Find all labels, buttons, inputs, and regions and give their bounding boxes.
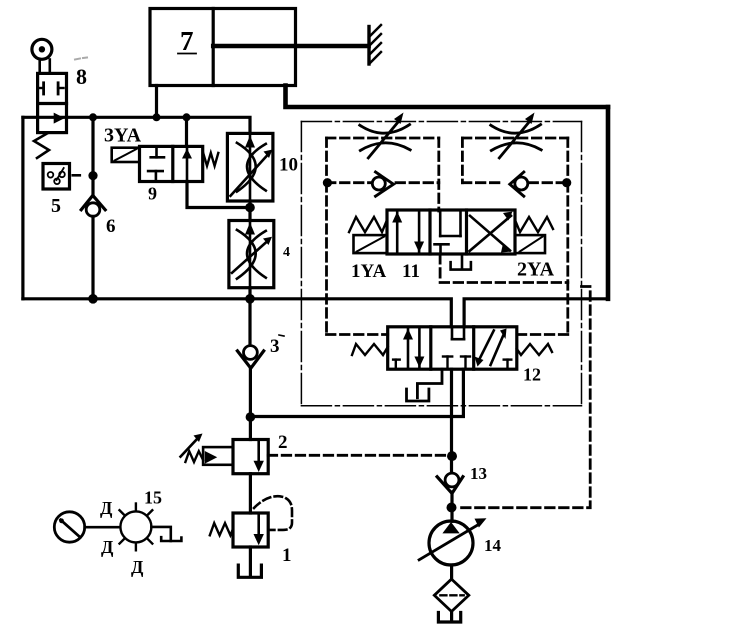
motor group 15: gauge circle [54,512,84,542]
wire bottom bus right [464,299,608,327]
remote throttle right [491,113,542,158]
check valve 3 [237,346,263,369]
wire right edge [606,107,611,299]
junction node pilot2 [447,451,457,461]
label 3 [270,335,284,357]
valve 1 [210,496,292,547]
junction node between throttles [245,203,255,213]
junction node bus-left [89,113,97,121]
svg-text:13: 13 [470,464,487,483]
check valve 13 [437,473,463,493]
svg-text:5: 5 [51,195,61,217]
svg-text:9: 9 [148,184,157,204]
wire top bus [23,117,250,133]
wire motor drain [151,527,170,541]
pump supply line [450,369,453,473]
valve 2 [181,434,269,474]
wire cylinder right port to right edge [286,86,609,108]
throttle valve 10 [227,133,273,201]
solenoid 3YA [112,148,140,162]
wire bus down to check 3 [248,299,251,346]
valve 12 [352,327,552,369]
wire bus to valve 9 [185,117,188,146]
motor 15 circle [120,504,153,551]
junction node relay [88,171,97,180]
valve 9 [140,146,219,181]
wire cylinder left port [155,86,158,118]
svg-text:2: 2 [278,432,288,453]
subsystem frame box [301,122,581,406]
wire pilot valve2 dashed [268,454,448,457]
wire 4 to bus [248,288,251,299]
label 7 [178,26,196,56]
svg-text:Д: Д [131,557,144,577]
pressure switch 5 [43,164,70,190]
check valve on right pilot [510,172,528,196]
wire valve 9 to throttle junction [187,182,250,208]
svg-text:8: 8 [76,64,87,89]
junction node pilot F [447,503,457,513]
svg-text:1: 1 [282,545,292,566]
pump 14 [419,518,486,565]
pilot dashed left inner box [327,138,439,211]
svg-text:Д: Д [101,537,114,557]
throttle valve 4 [229,221,274,288]
wire valve2 to valve1 [249,474,252,513]
wire check3 to junction [249,367,252,417]
valve 12 drain and tank [407,369,443,401]
svg-text:4: 4 [283,245,290,260]
scan noise marks [75,59,80,60]
wire crossline to valve12 [250,369,463,416]
wire relay branch lower [91,216,94,298]
check valve on left pilot [372,172,393,196]
pilot dashed right inner box [462,138,567,183]
pilot dashed outer left [327,183,388,335]
wire shaft [85,526,121,529]
wire bottom bus left [23,299,451,327]
junction node left pilot [323,178,332,187]
wire junction to valve2 [249,417,252,440]
tank under valve 11 [451,254,471,270]
svg-text:10: 10 [279,155,298,176]
svg-text:1YA: 1YA [351,261,386,282]
junction node cylinder left port [153,113,161,121]
svg-text:3YA: 3YA [104,125,142,147]
svg-text:12: 12 [523,365,541,385]
filter [434,579,469,611]
junction node valve2 top [246,412,256,422]
cylinder 7 [150,9,369,86]
svg-text:7: 7 [180,26,194,56]
remote throttle left [360,113,411,158]
check valve 6 [81,195,105,216]
wire relay branch upper [91,117,94,196]
svg-text:6: 6 [106,216,116,237]
svg-text:14: 14 [484,536,502,555]
svg-text:3: 3 [270,336,280,357]
wire left edge [21,117,24,298]
wall anchor [369,25,381,64]
tank at motor drain [161,537,181,541]
junction node bus x250 [245,294,255,304]
wire filter to tank [450,612,453,621]
pilot dashed valve11 drain [440,255,568,283]
svg-text:2YA: 2YA [517,259,555,281]
svg-text:15: 15 [144,488,162,508]
valve 11 [349,210,553,254]
pilot dashed line to pump node [457,287,590,508]
tank under valve 1 [238,565,261,577]
svg-text:11: 11 [402,261,420,282]
wire check13 to pump [450,492,453,521]
wire 10 to 4 [248,201,251,221]
junction node right pilot [562,178,571,187]
junction node bus x93 [88,294,98,304]
junction node valve9 tap [183,113,191,121]
wire valve1 to tank [249,547,252,576]
pilot dashed outer right [517,183,568,335]
tank under filter [438,613,460,623]
wire dashed link 5 [73,174,83,177]
valve 8 [32,39,67,158]
wire pump to filter [450,565,453,579]
svg-text:Д: Д [100,498,113,518]
